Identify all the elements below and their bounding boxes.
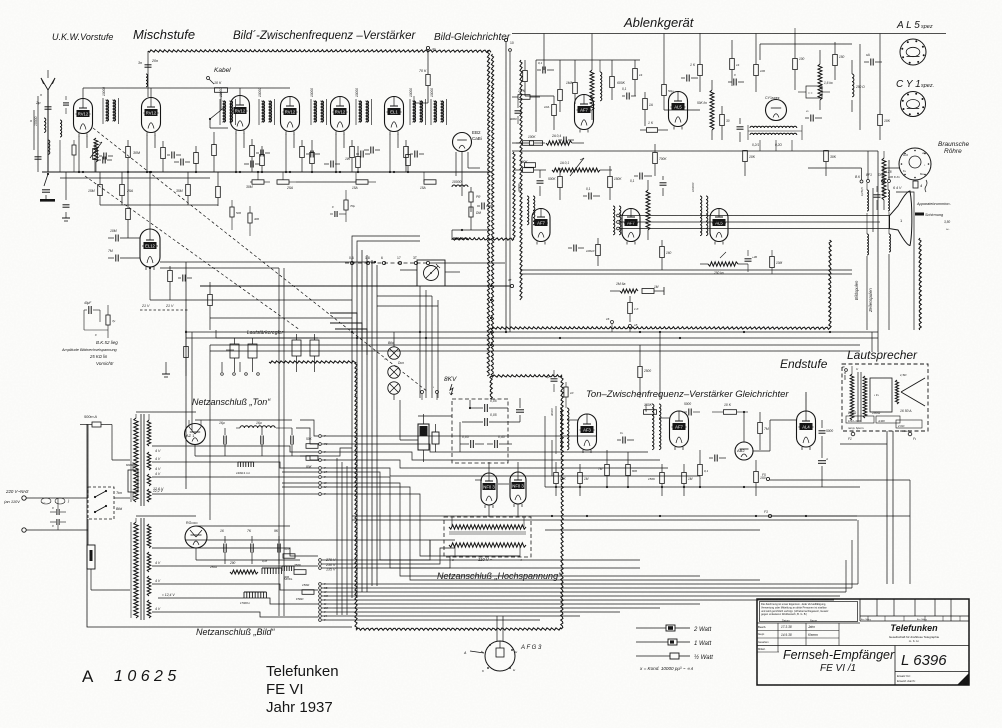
capacitor EL12 in2 — [108, 249, 140, 262]
capacitor CA3 — [537, 170, 544, 196]
lamp Bild — [388, 332, 400, 359]
wire trunk x367 — [366, 255, 368, 592]
resistor tube2 cathode — [161, 141, 166, 172]
wire bus mid y345 — [210, 344, 860, 346]
comb RB12 — [240, 592, 266, 605]
wire pot terminals — [221, 362, 260, 375]
electrolytic can E1 — [418, 414, 429, 462]
shield wavy right vertical — [487, 51, 494, 376]
capacitor CB2 — [660, 176, 667, 196]
potentiometer P3 — [292, 334, 301, 372]
resistor AD8 — [754, 52, 766, 92]
tube V20 AF7 ton — [670, 411, 689, 450]
wire stair Ton 4 — [152, 489, 318, 494]
wire trunk x352 — [351, 240, 353, 598]
switch box S1 — [88, 487, 123, 519]
capacitor CA2 mica — [558, 137, 574, 144]
capacitor +30 — [745, 250, 758, 272]
capacitor mains x1 — [50, 506, 66, 515]
tube V14 AL5 line — [710, 209, 728, 245]
wire al4 anode up — [806, 392, 853, 411]
resistor det 2 — [469, 207, 481, 230]
tube V8 EL12 — [140, 229, 160, 270]
shield wavy hv horizontal — [453, 238, 514, 241]
capacitor 40uF v1 — [84, 301, 100, 330]
wire osc feed — [138, 51, 158, 97]
wire tube6 cathode drop — [389, 134, 398, 173]
wire ablenk verticals — [544, 34, 756, 75]
capacitor CB10 — [220, 529, 226, 564]
label Kabel — [207, 67, 232, 84]
capacitor mains y — [126, 462, 138, 500]
shield wavy bottom — [356, 628, 562, 630]
wire ablenk top border — [512, 33, 946, 35]
wire pot tops — [216, 330, 318, 338]
tube V10 AL5 vert — [669, 92, 688, 130]
shield wavy crt — [919, 238, 921, 330]
resistor under v1 — [106, 305, 116, 338]
wire under v1 — [84, 330, 108, 337]
wire endstufe drop — [659, 331, 661, 400]
capacitor tube1 bypass — [99, 153, 113, 160]
resistor RA7 100k — [516, 141, 545, 146]
label Bild-Gleichrichter — [434, 32, 511, 43]
resistor tube6 cathode — [404, 140, 409, 172]
coil speaker voice — [895, 373, 907, 404]
resistor left extra — [72, 140, 76, 172]
coil ton IF2 — [644, 404, 661, 450]
box HV transformer dashed — [444, 517, 531, 557]
label AL5 spez — [896, 20, 933, 31]
transformer HV primary — [449, 525, 526, 534]
lamp Dunkel — [388, 361, 404, 378]
wire ton grid links — [567, 418, 670, 420]
wire right edge vertical2 — [871, 332, 873, 352]
wire stair Ton 2 — [152, 457, 318, 468]
IF transformer 3 — [258, 88, 275, 125]
terminals Ton column — [319, 434, 328, 496]
zigzag RE3 — [646, 180, 650, 240]
capacitor HV2 — [462, 413, 520, 426]
wire F3 line — [764, 510, 910, 584]
wire hv links — [400, 400, 452, 440]
coil CRT deflect 1 — [867, 213, 869, 330]
capacitor tzf extra — [546, 370, 558, 392]
legend 2 Watt — [636, 625, 712, 633]
wire stair Ton 1 — [152, 446, 318, 452]
wire mid y520 — [352, 519, 857, 521]
resistor mains dropper — [87, 545, 130, 590]
capacitor CE3 right — [864, 53, 882, 66]
resistor RTZ5 1M — [578, 464, 589, 496]
resistor RAB2 10k — [712, 403, 748, 414]
junction dots wavy — [490, 285, 492, 346]
label Braunsche Roehre — [938, 141, 969, 155]
box speaker dashed — [842, 364, 928, 431]
socket view Braunsche — [899, 148, 931, 180]
wire stair Bild 5 — [152, 607, 318, 617]
capacitor CAB1 — [682, 402, 700, 416]
wire trunk x377 — [376, 265, 378, 586]
resistor RT2 — [306, 456, 318, 469]
resistor AD5 — [662, 74, 674, 110]
IF transformer 5 — [355, 88, 372, 125]
resistor RD2 — [833, 42, 845, 80]
transformer TR2 sec c — [147, 576, 151, 596]
dashed diagonal AVC 1 — [93, 128, 428, 392]
terminal 18 — [629, 323, 638, 332]
resistor R12 — [212, 132, 217, 172]
IF transformer 4 — [310, 88, 327, 125]
resistor RB2 700k — [653, 144, 668, 176]
wire bend 3 — [335, 329, 367, 355]
tube V19 AF3 — [578, 414, 597, 453]
wire mesh verticals — [337, 458, 347, 615]
capacitor CB12 — [274, 529, 280, 564]
resistor AD3 — [544, 96, 556, 130]
resistor RTZ2 — [626, 452, 638, 487]
resistor RD1 100 — [793, 33, 805, 90]
resistor RA5 — [643, 92, 653, 126]
terminal conn2 — [365, 256, 370, 265]
capacitor CE2 — [568, 245, 584, 252]
zigzag cluster 2A04 — [546, 134, 584, 145]
wire det join — [452, 229, 492, 240]
wire EL12 stubs — [149, 267, 186, 300]
resistor R14 — [310, 140, 315, 172]
resistor Kabel 10k — [214, 81, 228, 104]
capacitor CA1 — [622, 87, 636, 100]
capacitor tube4 bypass — [306, 151, 320, 158]
capacitor CD1 — [805, 109, 822, 122]
title block project name — [783, 648, 895, 674]
wire EL12 top — [149, 171, 151, 229]
tube V13 AF7 line2 — [622, 209, 640, 245]
wire bild smoothing bus — [196, 526, 300, 560]
capacitor C12 — [244, 161, 260, 168]
label Ablenkgeraet — [623, 15, 695, 30]
wire EL12 out right — [160, 261, 376, 263]
wire mesh ton 8 — [322, 483, 700, 576]
capacitor HV1 — [469, 399, 508, 412]
wire el12 y318 — [210, 317, 352, 319]
wire cable to det — [414, 96, 428, 103]
capacitor E2 — [432, 424, 439, 452]
shield wavy top — [148, 50, 491, 53]
potentiometer P2 — [248, 338, 257, 372]
tube V16 NF03 — [510, 472, 526, 507]
resistor R11 — [194, 146, 199, 172]
label speaker table — [846, 409, 922, 433]
wire centre verticals — [420, 286, 438, 398]
transformer TR2 core — [141, 518, 144, 620]
capacitor mid x — [330, 205, 346, 217]
IF transformer 2 — [219, 88, 236, 125]
resistor RTZ1 — [598, 450, 609, 487]
pot RA10 arrow — [570, 158, 584, 176]
label MKL — [284, 577, 304, 601]
resistor tube3 cathode — [250, 139, 255, 172]
wire mesh ton 2 — [322, 444, 648, 452]
capacitor CE1 — [583, 187, 600, 200]
label 220V — [4, 489, 70, 504]
transformer speaker primary — [843, 371, 854, 420]
resistor comb Ton — [236, 462, 254, 475]
wire tube5 cathode drop — [335, 134, 344, 173]
resistor vol drop — [184, 330, 189, 376]
label Lautstaerkeregler — [247, 330, 283, 336]
tube V9 AF7 sync — [575, 95, 594, 133]
terminal row CRT — [855, 170, 892, 183]
resistor RB1 1k — [640, 121, 668, 132]
capacitor HV4 — [487, 435, 512, 448]
shield wavy to capbox — [490, 376, 492, 399]
wire stair Bild 1 — [152, 548, 318, 556]
label Lautsprecher — [847, 348, 918, 362]
shield wavy mid horizontal — [491, 375, 562, 377]
wire bus mid y351 — [210, 350, 860, 352]
potentiometer P1 — [226, 338, 239, 372]
terminal conn3 — [381, 256, 386, 265]
wire centre h-links — [377, 286, 438, 306]
CRT tube horn — [890, 191, 912, 246]
resistor R22 — [176, 172, 190, 205]
tube V22 AL4 — [797, 411, 816, 450]
resistor RE2 150k — [608, 166, 623, 200]
shield wavy hv vertical — [513, 152, 515, 239]
transformer TR2 sec b — [147, 552, 151, 572]
terminal conn5 — [413, 256, 418, 265]
wire left riser x192 — [191, 332, 193, 430]
wire left riser x210 — [209, 345, 211, 520]
title block outer — [757, 599, 969, 685]
wire ton bus 516 — [352, 515, 857, 517]
coil LE2 — [613, 206, 621, 235]
wire crt neck lines — [617, 214, 890, 230]
resistor 15A h — [352, 172, 376, 190]
wire CY1 drops — [760, 140, 792, 151]
capacitor tube6 bypass — [410, 151, 424, 158]
legend half Watt — [636, 653, 713, 661]
wire bottom trunk risers — [339, 602, 341, 627]
wire hv tap lines — [322, 540, 520, 568]
resistor RTZ6 150k — [648, 464, 664, 496]
coil LE3 — [691, 182, 708, 235]
wire ablenk bus y151 — [512, 150, 878, 152]
tube V17 AZ1 — [185, 424, 206, 445]
capacitor left extra — [63, 96, 69, 114]
label U.K.W. Vorstufe — [52, 32, 113, 42]
terminal conn1 — [349, 256, 354, 265]
stamp Telefunken FE VI Jahr 1937 — [266, 663, 339, 716]
terminal cable top — [426, 46, 435, 51]
resistor R20 — [88, 172, 102, 205]
title block fineprint text — [761, 602, 829, 616]
resistor RE1 500k — [548, 168, 562, 200]
coil LE1 — [517, 183, 535, 224]
wire bottom bus 8 — [322, 611, 620, 613]
resistor 10M mid — [770, 250, 783, 274]
tube V2 RV12P4000 — [142, 98, 161, 136]
tube V1 RV12P4000 — [74, 99, 93, 137]
capacitor RC5 — [737, 118, 744, 142]
wire EL12 down pair — [160, 268, 284, 616]
wire mesh ton 4 — [322, 460, 668, 468]
wire afg3 leads — [497, 616, 503, 641]
resistor tube1 cathode — [93, 142, 98, 172]
coil ton IF1 — [550, 406, 569, 454]
zigzag resistor RA4 — [590, 60, 594, 120]
resistor tube4 cathode — [300, 140, 305, 172]
wire mid y540 — [186, 540, 430, 556]
tube V21 AB2 — [735, 442, 753, 460]
wire underbus link — [100, 182, 356, 214]
title block number cell — [895, 646, 947, 686]
resistor R15 — [345, 146, 360, 172]
resistor 70K mid — [344, 190, 355, 222]
capacitor CB11 — [247, 529, 253, 564]
box RD5 unit — [798, 86, 830, 98]
title block left table — [757, 619, 969, 653]
resistor 1M box — [642, 285, 664, 295]
wire ton extra taps — [282, 420, 318, 487]
wire mains caps stub — [57, 498, 59, 530]
tube V6 EF14 — [385, 97, 404, 135]
label TR1 taps — [153, 449, 164, 491]
wire ton bus 530 — [545, 529, 760, 531]
resistor RB14 — [302, 583, 314, 594]
wire bus mid y338 — [186, 337, 878, 339]
wire EB2 drops — [456, 152, 480, 196]
resistor RA1 — [558, 60, 563, 112]
wire bottom bus 3 — [322, 591, 846, 593]
shield wavy mid up — [829, 240, 832, 328]
transformer HV secondary — [449, 543, 526, 547]
transformer TR1 sec c — [147, 474, 151, 486]
wire left border — [87, 424, 352, 627]
wire bottom bus 1 — [322, 583, 858, 585]
terminal speaker F1 — [848, 432, 855, 441]
title block fineprint box — [760, 602, 858, 622]
resistor 30M h — [246, 180, 270, 189]
coil CRT deflect 2 — [889, 212, 891, 330]
resistor 35K psu — [283, 547, 295, 558]
coil det 10000 — [452, 180, 468, 187]
capacitor tube5 bypass — [356, 151, 370, 158]
wire HV riser — [460, 398, 524, 452]
IF transformer 1 — [102, 87, 119, 124]
resistor RT1 — [306, 437, 318, 448]
label 8KV — [444, 376, 457, 395]
wire right risers — [860, 34, 880, 131]
label Bildspulen — [854, 280, 859, 300]
ground antenna — [40, 173, 55, 202]
resistor 150 h2 — [420, 172, 436, 190]
wire main bus y172 — [42, 171, 492, 173]
wire crt right hook — [896, 192, 914, 330]
potentiometer P4 — [310, 334, 319, 372]
resistor cluster 15K — [512, 89, 540, 99]
wire bend 2 — [330, 323, 362, 350]
capacitor CT2 — [256, 421, 263, 456]
capacitor antenna series — [35, 100, 52, 109]
wire bottom bus 6 — [322, 603, 700, 605]
wire grid feed top — [83, 88, 290, 98]
tube V12 AF7 line — [532, 209, 550, 245]
tube V4 RV12P2000 — [281, 97, 300, 135]
tube V15 NF03 — [481, 473, 497, 508]
wire right cluster frame — [760, 28, 852, 60]
wire bottom bus 2 — [322, 587, 852, 589]
wire trunk top hooks — [352, 236, 420, 245]
tube V11 CY1 damper — [765, 96, 787, 121]
resistor R23 — [216, 172, 221, 206]
terminal mains lower — [22, 528, 88, 532]
resistor 70K cable — [419, 50, 430, 103]
coil left extra — [60, 120, 62, 172]
legend 1 Watt — [636, 639, 712, 647]
wire ton bus 487 — [545, 486, 860, 488]
resistor RA6 — [525, 163, 536, 168]
wire trunk x372 — [371, 260, 373, 586]
resistor det 1 — [469, 187, 481, 212]
wire conn to right — [430, 262, 505, 264]
resistor endstufe 2500 — [638, 345, 652, 398]
lamp three — [384, 357, 400, 400]
capacitor tube3 bypass — [256, 150, 270, 157]
transformer TR1 core — [141, 414, 144, 506]
resistor RA9 — [514, 160, 546, 172]
shield wavy spur — [269, 361, 357, 395]
resistor EL12 grid — [126, 172, 131, 238]
resistor RC1 1k — [690, 33, 702, 92]
resistor 1K mid — [628, 296, 640, 322]
wire bottom bus 5 — [322, 599, 834, 601]
resistor RC4 — [720, 106, 730, 140]
wire mid y286 — [200, 278, 514, 288]
capacitor det — [477, 203, 492, 210]
capacitor EL12 in — [108, 229, 140, 242]
resistor RE6 10k — [743, 150, 756, 176]
fuse F1 — [80, 415, 112, 427]
wire ablenk top link — [536, 60, 640, 132]
capacitor HV3 — [460, 435, 484, 448]
wire mesh ton 1 — [322, 435, 596, 437]
legend note — [639, 666, 693, 671]
terminal 16 — [606, 317, 614, 332]
wire mains risers — [88, 425, 130, 499]
resistor 400 col — [248, 206, 259, 236]
wire bottom bus 10 — [322, 619, 540, 621]
label Zeilenspulen — [868, 288, 873, 313]
resistor RA3 — [610, 60, 626, 100]
ground pot — [162, 362, 170, 377]
wire stair Bild 3 — [152, 579, 318, 590]
zigzag 1M6a — [610, 282, 638, 293]
tube V5 RV12P2000 — [331, 97, 350, 135]
wire meter leads — [400, 270, 460, 272]
resistor RAB4 150 — [754, 460, 766, 496]
resistor 500 col — [230, 200, 241, 230]
capacitor CRT mid — [873, 186, 881, 232]
resistor RB13 — [294, 563, 306, 574]
shield wavy mid long — [490, 327, 830, 330]
wire ton risers — [545, 416, 552, 487]
comb RB11 — [262, 559, 282, 574]
tube V18 RGN rect — [185, 521, 207, 548]
wire mesh ton 9 — [322, 487, 760, 580]
switch Kabel arm — [209, 104, 228, 128]
